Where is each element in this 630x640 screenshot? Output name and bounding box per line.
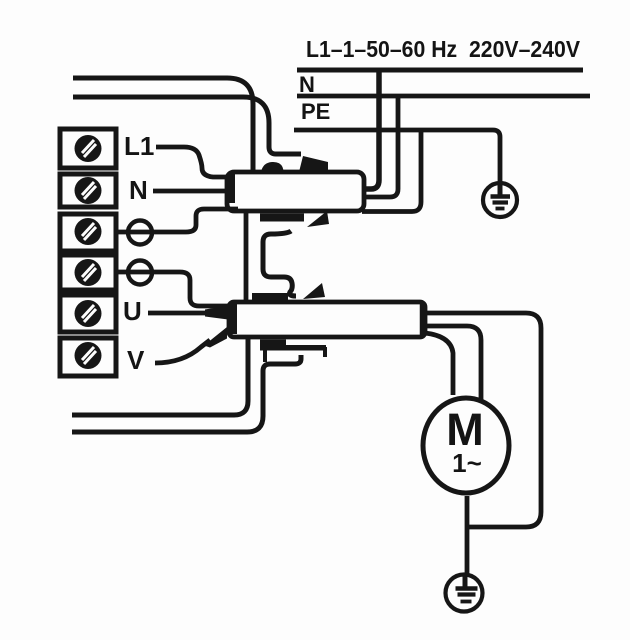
latch wedge under X1 <box>307 211 329 227</box>
connector X2 left cap <box>229 304 237 334</box>
connector X2 right cap line <box>420 303 425 336</box>
wire ring terminal 3 to X1 <box>117 209 238 232</box>
connector X1 (upper plug body) <box>227 172 364 211</box>
terminal block squares <box>60 129 116 376</box>
wire N drop to connector X1 <box>360 94 398 197</box>
terminal screws <box>75 135 102 369</box>
connector X2 (lower plug body) <box>229 302 425 337</box>
wedge U entry <box>205 306 228 320</box>
wire X2 to earth loop (right) <box>420 313 541 527</box>
latch hook under X2 <box>323 347 327 357</box>
latch S profile between connectors <box>263 231 296 296</box>
svg-text:N: N <box>299 72 315 97</box>
screw slots (white slashes) <box>82 140 96 364</box>
wire PE drop to connector X1 <box>362 128 421 212</box>
wire motor cable conductor B (bottom left) <box>72 355 301 432</box>
wire motor to earth <box>465 496 470 575</box>
bump on X1 top <box>261 162 284 172</box>
svg-text:L1–1–50–60 Hz 220V–240V: L1–1–50–60 Hz 220V–240V <box>306 36 581 62</box>
svg-text:1~: 1~ <box>452 448 482 478</box>
latch bar under X1 <box>260 214 304 222</box>
wire ring terminal 4 to X2 <box>117 272 230 306</box>
wire N supply line <box>297 94 590 99</box>
wire link X1 to X2 <box>244 212 249 301</box>
wire PE line to earth <box>294 130 500 183</box>
wire mains cable conductor 2 (top left) <box>73 97 301 154</box>
svg-text:V: V <box>127 345 145 375</box>
connector X1 left cap <box>227 173 235 203</box>
wire terminal N to X1 <box>153 189 228 194</box>
wire X2 to motor terminal 2 <box>425 333 453 395</box>
motor M1 <box>423 398 509 493</box>
wire mains cable conductor 1 (top left) <box>73 78 253 171</box>
latch bar above X2 <box>252 293 288 301</box>
latch wedge above X2 <box>303 283 325 299</box>
node ring terminal 4 <box>128 261 152 285</box>
wire X2 to motor terminal 1 <box>420 326 481 401</box>
latch bar under X2 <box>284 345 326 351</box>
svg-text:U: U <box>123 296 142 326</box>
wire motor cable conductor A (bottom left) <box>72 339 248 415</box>
latch blob under X2 <box>260 340 286 351</box>
wedge V entry <box>204 327 227 348</box>
svg-text:N: N <box>129 175 148 205</box>
node ring terminal 3 <box>128 221 152 245</box>
svg-text:L1: L1 <box>124 131 154 161</box>
wire terminal V to X2 <box>155 340 210 363</box>
wire L1 supply line <box>297 68 583 73</box>
wire L1 drop to connector X1 <box>361 68 379 189</box>
svg-text:PE: PE <box>301 99 330 124</box>
ground PE1 (top right earth symbol) <box>483 183 517 217</box>
wire terminal U to X2 <box>148 311 205 316</box>
ground PE2 (bottom earth symbol) <box>446 575 483 612</box>
wire terminal L1 to X1 <box>156 147 228 177</box>
wedge cable entry into X1 <box>299 156 328 172</box>
latch stub under X2 <box>263 350 267 362</box>
